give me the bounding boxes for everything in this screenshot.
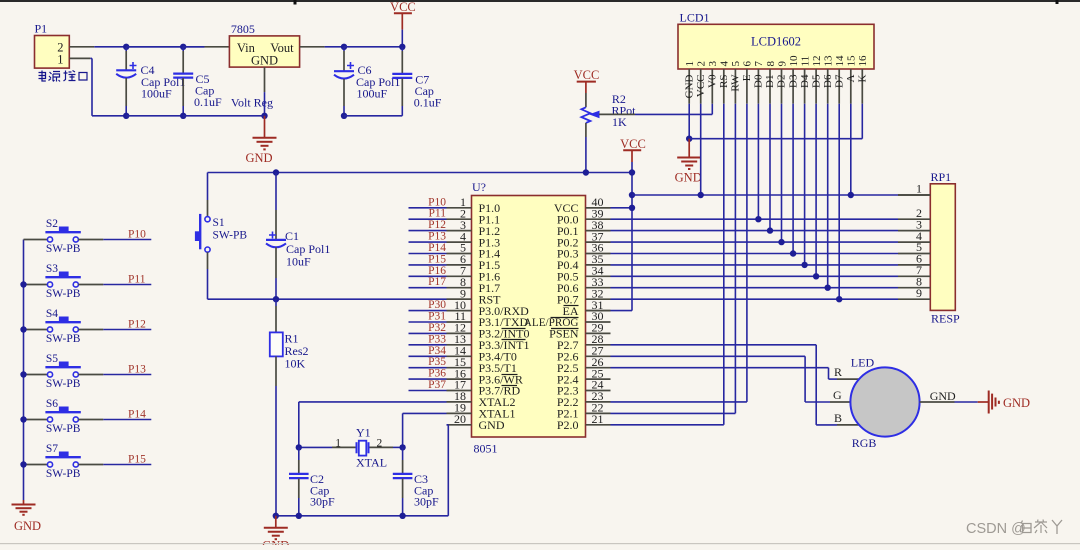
- wire R2 wiper to LCD V0: [599, 104, 712, 115]
- svg-text:GND: GND: [245, 151, 272, 165]
- potentiometer R2 RPot 1K: [581, 92, 636, 173]
- junction C4 top: [123, 44, 129, 50]
- wire net P10: [409, 207, 447, 209]
- svg-text:P17: P17: [428, 276, 446, 288]
- net label P16: [428, 265, 446, 277]
- wire VCC vertical to EA: [586, 162, 633, 311]
- svg-text:D0: D0: [753, 74, 765, 88]
- svg-text:P14: P14: [128, 409, 146, 421]
- svg-text:4: 4: [719, 61, 731, 67]
- junction C2 bottom: [296, 513, 302, 519]
- capacitor C2 30pF: [289, 447, 335, 515]
- junction Y1 pin2: [399, 444, 405, 450]
- svg-text:7: 7: [753, 61, 765, 67]
- svg-text:0.1uF: 0.1uF: [194, 95, 222, 109]
- svg-text:V0: V0: [707, 74, 719, 88]
- switch S5 SW-PB: [24, 353, 104, 390]
- wire LCD RW to chip P2.1: [611, 104, 736, 414]
- junction VCC/top-line: [629, 169, 635, 175]
- junction C6 top: [341, 44, 347, 50]
- svg-text:K: K: [857, 74, 869, 82]
- junction C6 bottom: [341, 113, 347, 119]
- svg-text:GND: GND: [683, 74, 695, 98]
- net label P11: [128, 274, 146, 286]
- svg-text:10uF: 10uF: [286, 255, 311, 269]
- net label P33: [428, 333, 446, 345]
- svg-text:P36: P36: [428, 368, 446, 380]
- svg-text:D4: D4: [799, 74, 811, 88]
- wire C5 to regulator: [183, 47, 264, 116]
- junction rail S4: [20, 326, 26, 332]
- junction C7 top: [399, 44, 405, 50]
- ground symbol power section: [245, 116, 276, 165]
- label 电源接口 (power connector): [39, 71, 88, 82]
- net label P13: [428, 231, 446, 243]
- wire P0.2 row to RP1: [611, 241, 899, 243]
- svg-text:VCC: VCC: [574, 68, 600, 82]
- svg-text:30pF: 30pF: [310, 495, 335, 509]
- net label P36: [428, 368, 446, 380]
- svg-text:CSDN @: CSDN @: [966, 521, 1026, 537]
- svg-text:3: 3: [707, 61, 719, 67]
- wire P0.7 row to RP1: [611, 298, 899, 300]
- svg-text:R: R: [834, 365, 842, 379]
- wire LCD D4 column: [804, 104, 806, 265]
- switch S1 SW-PB: [195, 173, 247, 300]
- svg-text:0.1uF: 0.1uF: [414, 96, 442, 110]
- junction D2/P0.2: [778, 239, 784, 245]
- svg-text:E: E: [741, 74, 753, 81]
- wire LCD K backlight line: [689, 104, 862, 139]
- junction C1 top: [273, 169, 279, 175]
- svg-text:S6: S6: [46, 398, 58, 410]
- svg-text:D6: D6: [822, 74, 834, 88]
- net label P10: [428, 196, 446, 208]
- ground symbol switch rail: [12, 500, 42, 533]
- svg-text:LCD1602: LCD1602: [751, 35, 801, 49]
- svg-text:100uF: 100uF: [141, 87, 172, 101]
- junction bottom rail left: [273, 513, 279, 519]
- capacitor C1 10uF: [266, 173, 330, 300]
- net label P37: [428, 379, 446, 391]
- wire net P33: [409, 344, 447, 346]
- wire S4 to net label: [103, 329, 151, 331]
- svg-text:S2: S2: [46, 218, 58, 230]
- svg-text:P10: P10: [428, 196, 446, 208]
- wire net P35: [409, 367, 447, 369]
- net label P15: [428, 253, 446, 265]
- svg-text:30pF: 30pF: [414, 495, 439, 509]
- svg-text:6: 6: [742, 61, 754, 67]
- wire LCD D5 column: [815, 104, 817, 277]
- net label P11: [429, 208, 447, 220]
- svg-text:P35: P35: [428, 356, 446, 368]
- svg-text:15: 15: [846, 55, 858, 67]
- wire LED GND out: [920, 389, 978, 403]
- junction rail S7: [20, 461, 26, 467]
- svg-text:D2: D2: [776, 75, 788, 88]
- svg-text:P15: P15: [428, 253, 446, 265]
- wire LCD D6 column: [827, 104, 829, 288]
- LED RGB: [833, 356, 920, 451]
- svg-text:P30: P30: [428, 299, 446, 311]
- svg-text:GND: GND: [675, 171, 702, 185]
- connector P1: [35, 22, 70, 69]
- svg-text:1: 1: [57, 53, 63, 67]
- svg-text:5: 5: [730, 61, 742, 67]
- wire net P13: [409, 241, 447, 243]
- svg-text:8051: 8051: [474, 442, 498, 456]
- ground symbol LCD: [675, 139, 702, 185]
- svg-text:13: 13: [823, 55, 835, 67]
- svg-text:P14: P14: [428, 242, 446, 254]
- svg-text:P12: P12: [128, 319, 146, 331]
- wire net P11: [409, 218, 447, 220]
- svg-text:P2.0: P2.0: [557, 418, 579, 432]
- power port VCC (R2): [574, 68, 600, 93]
- svg-text:S4: S4: [46, 308, 58, 320]
- wire P2.5 to LED R: [611, 368, 860, 379]
- svg-text:2: 2: [696, 61, 708, 67]
- svg-text:SW-PB: SW-PB: [46, 468, 81, 480]
- power ground symbol LED: [978, 391, 1030, 414]
- switch S6 SW-PB: [24, 398, 104, 435]
- svg-text:B: B: [834, 411, 842, 425]
- wire net P14: [409, 253, 447, 255]
- svg-text:P33: P33: [428, 333, 446, 345]
- svg-text:U?: U?: [472, 180, 486, 194]
- wire P1 pin2 to Vin rail: [69, 46, 229, 48]
- net label P12: [428, 219, 446, 231]
- svg-text:SW-PB: SW-PB: [46, 243, 81, 255]
- wire LCD RS to chip P2.0: [611, 104, 724, 425]
- svg-text:VCC: VCC: [695, 75, 707, 98]
- svg-text:GND: GND: [479, 418, 505, 432]
- svg-text:16: 16: [857, 55, 869, 67]
- svg-text:SW-PB: SW-PB: [46, 423, 81, 435]
- wire S6 to net label: [103, 419, 151, 421]
- svg-text:100uF: 100uF: [357, 87, 388, 101]
- junction LCD A: [848, 192, 854, 198]
- wire LCD D7 column: [838, 104, 840, 300]
- svg-text:RS: RS: [718, 75, 730, 88]
- wire XTAL1 pin19: [403, 413, 447, 447]
- svg-text:P31: P31: [428, 311, 446, 323]
- svg-text:RP1: RP1: [931, 170, 952, 184]
- power port VCC (regulator output): [390, 0, 416, 47]
- svg-text:14: 14: [834, 55, 846, 67]
- junction D3/P0.3: [790, 250, 796, 256]
- junction pin40: [629, 205, 635, 211]
- crystal Y1 XTAL: [299, 426, 403, 470]
- svg-text:LCD1: LCD1: [680, 11, 710, 25]
- svg-text:Volt Reg: Volt Reg: [231, 96, 273, 110]
- wire S3 to net label: [103, 284, 151, 286]
- svg-text:1: 1: [916, 182, 922, 196]
- wire P1 pin1 down to ground rail: [69, 58, 126, 115]
- svg-text:P11: P11: [429, 208, 447, 220]
- svg-text:P13: P13: [128, 364, 146, 376]
- junction LCD GND: [686, 136, 692, 142]
- svg-text:S7: S7: [46, 443, 58, 455]
- net label P14: [428, 242, 446, 254]
- wire LCD D3 column: [792, 104, 794, 254]
- IC U? 8051: [447, 180, 611, 456]
- svg-text:7805: 7805: [231, 22, 255, 36]
- wire LCD E to chip P2.2: [611, 104, 747, 402]
- resistor R1 10K: [270, 299, 309, 516]
- capacitor C6 100uF: [334, 47, 400, 116]
- svg-text:SW-PB: SW-PB: [46, 288, 81, 300]
- wire net P34: [409, 355, 447, 357]
- wire S2 to net label: [103, 239, 151, 241]
- junction D1/P0.1: [767, 227, 773, 233]
- junction D7/P0.7: [836, 296, 842, 302]
- svg-text:SW-PB: SW-PB: [213, 230, 248, 242]
- wire LCD D0 column: [757, 104, 759, 220]
- svg-text:GND: GND: [251, 53, 278, 67]
- net label P35: [428, 356, 446, 368]
- wire net P31: [409, 321, 447, 323]
- svg-text:VCC: VCC: [390, 0, 416, 14]
- svg-text:SW-PB: SW-PB: [46, 378, 81, 390]
- svg-text:D5: D5: [810, 74, 822, 88]
- svg-text:1: 1: [684, 61, 696, 67]
- svg-text:S5: S5: [46, 353, 58, 365]
- svg-text:9: 9: [916, 286, 922, 300]
- LCD module LCD1 LCD1602: [678, 11, 874, 104]
- svg-text:VCC: VCC: [620, 137, 646, 151]
- net label P15: [128, 454, 146, 466]
- wire C6 to C7: [344, 47, 402, 116]
- junction R1 top: [273, 296, 279, 302]
- ground symbol bottom: [262, 516, 289, 550]
- svg-text:Y1: Y1: [356, 426, 371, 440]
- svg-text:1K: 1K: [612, 115, 627, 129]
- wire P0.6 row to RP1: [611, 287, 899, 289]
- svg-text:XTAL: XTAL: [356, 456, 387, 470]
- svg-text:D7: D7: [833, 74, 845, 88]
- wire GND pin20 down: [403, 425, 449, 516]
- junction C5 top: [180, 44, 186, 50]
- junction D4/P0.4: [801, 262, 807, 268]
- wire top line S1-C1-R2-VCC: [208, 172, 633, 174]
- wire P0.4 row to RP1: [611, 264, 899, 266]
- wire P0.0 row to RP1: [611, 218, 899, 220]
- junction D0/P0.0: [755, 216, 761, 222]
- wire S5 to net label: [103, 374, 151, 376]
- svg-text:P16: P16: [428, 265, 446, 277]
- wire net P36: [409, 378, 447, 380]
- svg-text:GND: GND: [930, 389, 956, 403]
- junction C4 bottom: [123, 113, 129, 119]
- svg-text:A: A: [845, 74, 857, 82]
- switch S4 SW-PB: [24, 308, 104, 345]
- capacitor C3 30pF: [393, 447, 439, 515]
- net label P12: [128, 319, 146, 331]
- net label P14: [128, 409, 146, 421]
- wire P0.1 row to RP1: [611, 230, 899, 232]
- wire 7805 GND pin down: [264, 67, 266, 116]
- wire LCD D2 column: [781, 104, 783, 242]
- svg-text:LED: LED: [851, 356, 875, 370]
- wire Vout to VCC: [300, 46, 344, 48]
- junction D5/P0.5: [813, 273, 819, 279]
- svg-text:12: 12: [811, 56, 823, 67]
- wire LCD VCC pin2 down: [700, 104, 702, 195]
- power port VCC (chip): [620, 137, 646, 162]
- svg-text:RW: RW: [730, 74, 742, 92]
- wire RST line: [208, 298, 472, 300]
- svg-text:SW-PB: SW-PB: [46, 333, 81, 345]
- wire LCD A pin15 down: [850, 104, 852, 195]
- svg-text:G: G: [833, 388, 842, 402]
- voltage regulator U 7805: [229, 22, 299, 110]
- svg-text:1: 1: [335, 438, 341, 450]
- net label P10: [128, 229, 146, 241]
- wire LCD D1 column: [769, 104, 771, 231]
- svg-text:P10: P10: [128, 229, 146, 241]
- wire P0.5 row to RP1: [611, 275, 899, 277]
- svg-text:P11: P11: [128, 274, 146, 286]
- capacitor C4 100uF: [116, 47, 185, 116]
- svg-text:P37: P37: [428, 379, 446, 391]
- wire P0.3 row to RP1: [611, 253, 899, 255]
- svg-text:GND: GND: [1003, 396, 1030, 410]
- wire P2.6 to LED G: [611, 356, 851, 402]
- capacitor C7 0.1uF: [392, 47, 441, 116]
- junction VCC rail: [629, 192, 635, 198]
- junction 7805 GND: [261, 113, 267, 119]
- svg-text:D3: D3: [787, 74, 799, 88]
- svg-text:C1: C1: [285, 229, 299, 243]
- svg-text:P12: P12: [428, 219, 446, 231]
- svg-text:GND: GND: [14, 519, 41, 533]
- junction rail S3: [20, 281, 26, 287]
- junction C3 bottom: [399, 513, 405, 519]
- svg-text:P15: P15: [128, 454, 146, 466]
- svg-text:21: 21: [592, 412, 604, 426]
- svg-text:D1: D1: [764, 75, 776, 88]
- capacitor C5 0.1uF: [173, 47, 222, 116]
- wire rail to C5: [126, 47, 183, 116]
- junction rail S6: [20, 416, 26, 422]
- wire VCC rail to LCD and RP1: [632, 194, 930, 196]
- svg-text:P13: P13: [428, 231, 446, 243]
- junction Y1 pin1: [296, 444, 302, 450]
- wire net P15: [409, 264, 447, 266]
- wire pin40 to VCC: [586, 207, 633, 209]
- net label P32: [428, 322, 446, 334]
- svg-text:RESP: RESP: [931, 312, 960, 326]
- wire net P16: [409, 275, 447, 277]
- svg-text:10K: 10K: [285, 357, 306, 371]
- switch S2 SW-PB: [24, 218, 104, 255]
- wire net P30: [409, 310, 447, 312]
- wire net P37: [409, 390, 447, 392]
- net label P31: [428, 311, 446, 323]
- wire net P12: [409, 230, 447, 232]
- junction LCD VCC: [698, 192, 704, 198]
- wire bottom ground rail: [276, 515, 403, 517]
- svg-text:S3: S3: [46, 263, 58, 275]
- net label P13: [128, 364, 146, 376]
- junction R2 bottom: [583, 169, 589, 175]
- wire switch ground rail: [23, 240, 25, 501]
- net label P30: [428, 299, 446, 311]
- svg-text:20: 20: [454, 412, 466, 426]
- wire P2.7 to LED B: [611, 345, 860, 425]
- svg-text:8: 8: [765, 61, 777, 67]
- svg-text:P32: P32: [428, 322, 446, 334]
- svg-text:9: 9: [776, 61, 788, 67]
- svg-text:S1: S1: [213, 217, 225, 229]
- wire net P17: [409, 287, 447, 289]
- net label P34: [428, 345, 446, 357]
- svg-text:10: 10: [788, 55, 800, 67]
- svg-text:P34: P34: [428, 345, 446, 357]
- resistor pack RP1 RESP: [898, 170, 960, 326]
- wire S7 to net label: [103, 464, 151, 466]
- switch S3 SW-PB: [24, 263, 104, 300]
- junction D6/P0.6: [825, 285, 831, 291]
- junction rail S5: [20, 371, 26, 377]
- svg-text:P1: P1: [35, 22, 48, 36]
- switch S7 SW-PB: [24, 443, 104, 480]
- net label P17: [428, 276, 446, 288]
- svg-text:2: 2: [377, 438, 383, 450]
- svg-text:11: 11: [799, 56, 811, 67]
- svg-text:RGB: RGB: [852, 436, 877, 450]
- junction C5 bottom: [180, 113, 186, 119]
- wire net P32: [409, 332, 447, 334]
- wire LCD GND pin1 down: [688, 104, 690, 139]
- wire XTAL2 pin18: [299, 402, 447, 448]
